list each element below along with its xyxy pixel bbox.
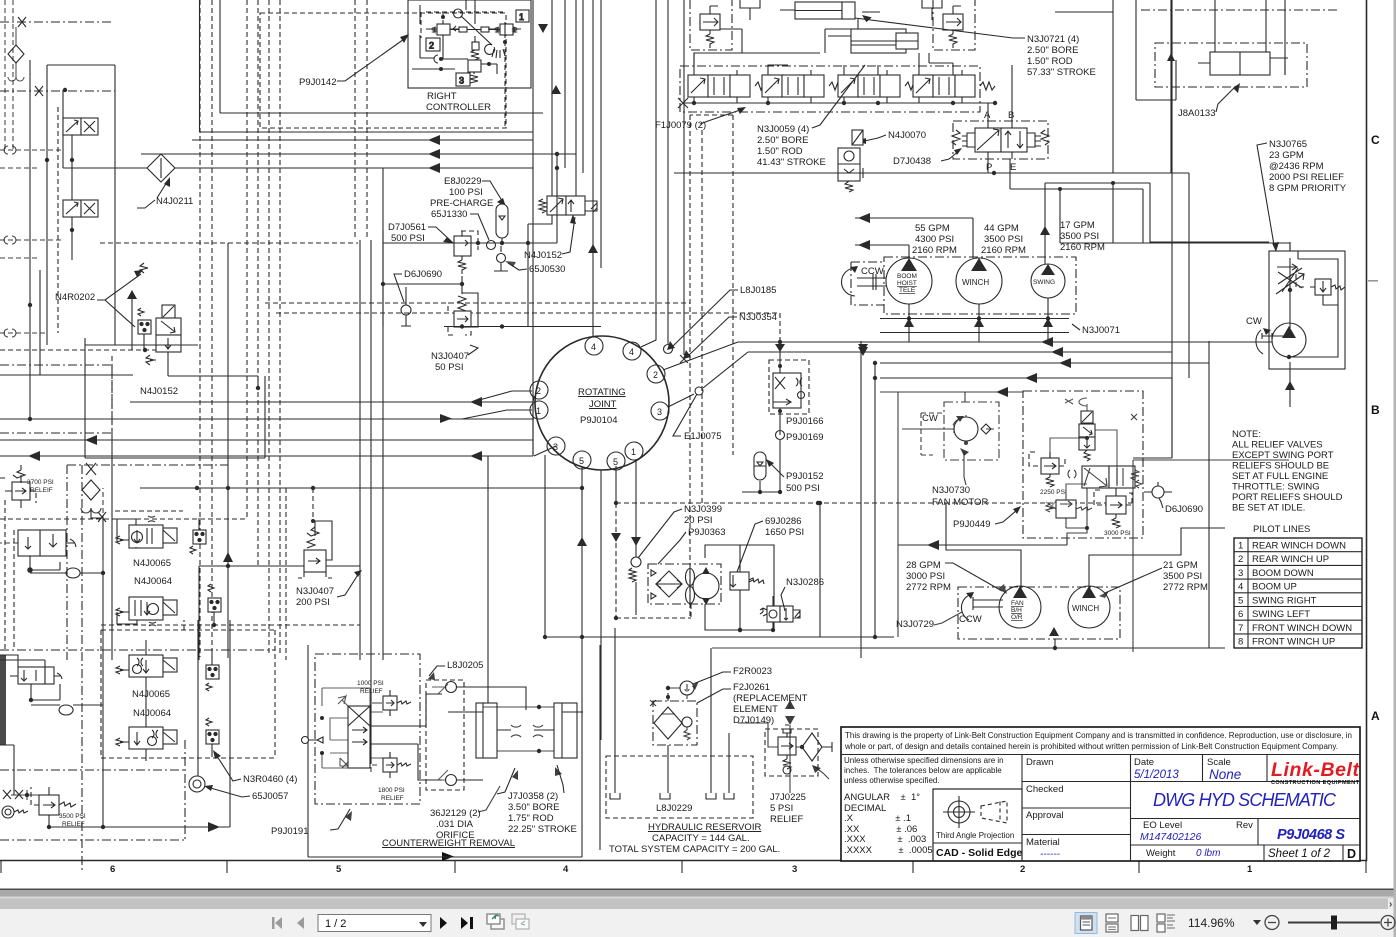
wire bus y284 [383, 283, 462, 285]
svg-text:RELIEF: RELIEF [360, 688, 383, 695]
svg-text:2000 PSI RELIEF: 2000 PSI RELIEF [1269, 172, 1344, 183]
svg-text:3500 PSI: 3500 PSI [1060, 231, 1099, 242]
leader D6J0690 top [394, 274, 404, 302]
svg-text:69J0286: 69J0286 [765, 516, 801, 527]
svg-text:C: C [1371, 133, 1380, 147]
svg-text:44 GPM: 44 GPM [984, 223, 1019, 234]
svg-text:N4J0152: N4J0152 [524, 250, 562, 261]
svg-text:P9J0152: P9J0152 [786, 471, 824, 482]
wire bus y168 [63, 167, 533, 169]
svg-text:3.50" BORE: 3.50" BORE [508, 802, 559, 813]
valve D7J0438 [952, 121, 1049, 159]
svg-text:2160 RPM: 2160 RPM [912, 245, 957, 256]
svg-text:CONSTRUCTION EQUIPMENT: CONSTRUCTION EQUIPMENT [1271, 780, 1360, 786]
box left edge [383, 168, 444, 327]
wire buses under pumps going right [738, 342, 1272, 352]
filter diamond [82, 480, 100, 500]
main valve P9J0191 [302, 696, 371, 768]
svg-text:.XXX ± .003: .XXX ± .003 [844, 834, 926, 845]
pump group box [884, 257, 1076, 314]
breather F2R0023 [680, 681, 694, 695]
svg-text:P9J0142: P9J0142 [299, 77, 337, 88]
leaders N3J0730 [964, 452, 966, 485]
N4J0065 valve bottom pair [116, 655, 177, 677]
svg-text:D7J0561: D7J0561 [388, 222, 426, 233]
svg-text:PRE-CHARGE: PRE-CHARGE [430, 198, 493, 209]
long wire y173 [674, 173, 1189, 378]
connector boxes right [206, 653, 219, 691]
svg-text:2.50" BORE: 2.50" BORE [757, 135, 808, 146]
svg-text:BE SET AT IDLE.: BE SET AT IDLE. [1232, 503, 1305, 514]
verticals mid [360, 230, 383, 764]
svg-text:RELEIF: RELEIF [30, 487, 53, 494]
wire bus y243 [383, 242, 557, 244]
svg-text:Rev: Rev [1236, 820, 1253, 831]
svg-text:REAR WINCH UP: REAR WINCH UP [1252, 554, 1329, 565]
svg-text:THROTTLE: SWING: THROTTLE: SWING [1232, 482, 1320, 493]
svg-text:CAPACITY = 144 GAL.: CAPACITY = 144 GAL. [652, 833, 750, 844]
svg-text:(REPLACEMENT: (REPLACEMENT [733, 693, 808, 704]
svg-text:D7J0149): D7J0149) [733, 715, 774, 726]
svg-text:N4J0070: N4J0070 [888, 130, 926, 141]
svg-text:D: D [1347, 847, 1356, 861]
svg-text:2250 PSI: 2250 PSI [1040, 489, 1067, 496]
wires fan motor [902, 428, 938, 430]
third angle projection box [933, 789, 1022, 861]
D6J0690 right [1152, 486, 1164, 498]
svg-text:N4J0065: N4J0065 [132, 689, 170, 700]
valve N4J0152 top [539, 196, 597, 215]
wires left [412, 5, 468, 69]
leader P9J0152 [770, 463, 784, 477]
svg-text:N3J0354: N3J0354 [739, 312, 777, 323]
lower reliefs [1046, 494, 1092, 524]
svg-text:P9J0449: P9J0449 [953, 519, 991, 530]
leader N4J0152 [562, 217, 575, 254]
svg-text:1: 1 [1238, 541, 1243, 552]
svg-text:N4J0064: N4J0064 [134, 576, 172, 587]
svg-text:3500 PSI: 3500 PSI [59, 813, 86, 820]
box wires [1066, 488, 1087, 538]
N3J0399 check [631, 557, 641, 567]
svg-text:1 / 2: 1 / 2 [325, 918, 346, 930]
3500 psi relief [28, 787, 76, 827]
wires D7J0438 [988, 65, 1012, 173]
wires right verticals [861, 341, 875, 658]
svg-text:21 GPM: 21 GPM [1163, 560, 1198, 571]
69J0286 relief [730, 545, 764, 630]
svg-text:22.25" STROKE: 22.25" STROKE [508, 824, 577, 835]
svg-text:5: 5 [613, 457, 618, 467]
small tee boxes [740, 0, 942, 20]
top box partial [1055, 12, 1176, 100]
relief N3J0407 50psi [448, 284, 478, 335]
leader N3J0721 [855, 18, 1025, 38]
pump SWING [1031, 264, 1065, 298]
leader N4J0211 [137, 182, 167, 208]
svg-text:B: B [1008, 110, 1014, 121]
bottom bus [49, 826, 230, 828]
leader D7J0561 [428, 227, 451, 241]
pilot valve 3 [456, 60, 489, 86]
svg-text:2: 2 [429, 41, 434, 51]
leader 65J0530 [508, 263, 527, 270]
svg-text:F2R0023: F2R0023 [733, 666, 772, 677]
wire bus y402 [130, 401, 533, 403]
svg-text:1.50" ROD: 1.50" ROD [1027, 56, 1073, 67]
filter F2J0261 [653, 701, 697, 745]
svg-text:65J0057: 65J0057 [252, 791, 288, 802]
svg-text:N3J0407: N3J0407 [431, 351, 469, 362]
svg-text:Unless otherwise specified dim: Unless otherwise specified dimensions ar… [844, 756, 1004, 765]
toolbar zoom area [1075, 913, 1395, 934]
svg-text:ROTATING: ROTATING [578, 387, 626, 398]
svg-text:5: 5 [1238, 596, 1243, 607]
svg-text:REAR WINCH DOWN: REAR WINCH DOWN [1252, 541, 1346, 552]
svg-text:D6J0690: D6J0690 [1165, 504, 1203, 515]
check valve N4J0070 [838, 130, 863, 192]
svg-text:.031 DIA: .031 DIA [436, 819, 474, 830]
svg-text:1: 1 [631, 447, 636, 457]
svg-text:6: 6 [1238, 609, 1243, 620]
wire bus y326 [444, 326, 601, 328]
svg-text:WINCH: WINCH [1072, 604, 1099, 613]
svg-text:N3J0071: N3J0071 [1082, 325, 1120, 336]
svg-text:M147402126: M147402126 [1140, 831, 1201, 843]
svg-text:F2J0261: F2J0261 [733, 682, 770, 693]
wire bus y440 [0, 439, 533, 441]
P9J0363 filter box [648, 564, 721, 604]
svg-text:P9J0363: P9J0363 [688, 527, 726, 538]
svg-text:8: 8 [1238, 637, 1243, 648]
svg-text:500 PSI: 500 PSI [786, 483, 820, 494]
svg-text:3000 PSI: 3000 PSI [1104, 530, 1131, 537]
relief cluster right [933, 0, 975, 50]
svg-text:6: 6 [110, 864, 115, 875]
boom cylinder 2 [694, 19, 918, 66]
svg-text:CAD - Solid Edge: CAD - Solid Edge [936, 847, 1022, 859]
leader N3J0407 [468, 345, 478, 355]
svg-text:CONTROLLER: CONTROLLER [426, 102, 491, 113]
svg-text:RELIEF: RELIEF [381, 795, 404, 802]
D7J0561 spring chain down [461, 260, 463, 284]
wire top verticals to bank [583, 0, 684, 355]
svg-text:WINCH: WINCH [962, 278, 989, 287]
svg-text:ANGULAR ± 1°: ANGULAR ± 1° [844, 792, 920, 803]
svg-text:P9J0468 S: P9J0468 S [1277, 827, 1345, 843]
svg-text:20 PSI: 20 PSI [684, 515, 713, 526]
valve N4J0152 mid [146, 305, 258, 388]
svg-text:3500 PSI: 3500 PSI [1163, 571, 1202, 582]
svg-text:3: 3 [459, 76, 464, 86]
wire buses [663, 342, 748, 407]
svg-text:L8J0185: L8J0185 [740, 285, 776, 296]
svg-text:CCW: CCW [861, 266, 884, 277]
dashed pilot line [616, 502, 1132, 504]
svg-text:SWING RIGHT: SWING RIGHT [1252, 596, 1317, 607]
svg-text:J7J0358 (2): J7J0358 (2) [508, 791, 558, 802]
svg-text:SWING: SWING [1033, 279, 1055, 286]
cylinders J7J0358 [448, 703, 583, 758]
svg-text:FRONT WINCH UP: FRONT WINCH UP [1252, 637, 1335, 648]
svg-text:RELIEFS SHOULD BE: RELIEFS SHOULD BE [1232, 461, 1329, 472]
svg-text:0 lbm: 0 lbm [1196, 848, 1220, 859]
svg-text:2: 2 [536, 386, 541, 396]
solenoid b [63, 200, 98, 217]
check 65J0530 [497, 254, 506, 263]
svg-text:36J2129 (2): 36J2129 (2) [430, 808, 481, 819]
svg-text:BOOM UP: BOOM UP [1252, 582, 1297, 593]
P9J0152 accumulator [754, 452, 766, 492]
leader L8J0205 [429, 666, 445, 676]
N4R0202 connector + leaders [138, 308, 151, 350]
svg-text:FAN MOTOR: FAN MOTOR [932, 497, 988, 508]
svg-text:J7J0225: J7J0225 [770, 792, 806, 803]
svg-text:D7J0438: D7J0438 [893, 156, 931, 167]
leader N3J0399 [638, 509, 682, 558]
valve N3J0059 2 [762, 70, 844, 103]
svg-text:EXCEPT SWING PORT: EXCEPT SWING PORT [1232, 450, 1334, 461]
svg-text:1: 1 [519, 12, 524, 22]
pump BOOM HOIST TELE [886, 258, 932, 304]
pilot valve 2 [426, 24, 459, 51]
svg-text:28 GPM: 28 GPM [906, 560, 941, 571]
svg-text:4: 4 [591, 342, 596, 352]
svg-text:2772 RPM: 2772 RPM [906, 582, 951, 593]
leaders [215, 753, 241, 781]
junction dots on bank bus [692, 101, 696, 105]
fan motor circle [693, 573, 719, 599]
svg-text:2: 2 [1020, 864, 1025, 875]
svg-text:TOTAL SYSTEM CAPACITY = 200 GA: TOTAL SYSTEM CAPACITY = 200 GAL. [609, 844, 780, 855]
svg-text:P9J0166: P9J0166 [786, 416, 824, 427]
valve cluster left-bottom series [18, 530, 76, 572]
dash-dot borders bottom-left [0, 465, 275, 870]
connector box small 1 [190, 518, 206, 554]
svg-text:@2436 RPM: @2436 RPM [1269, 161, 1324, 172]
P9J0166 [769, 360, 809, 414]
pilot valve 1 [488, 10, 529, 35]
wire box around N4J0152 [85, 338, 265, 458]
svg-text:5 PSI: 5 PSI [770, 803, 793, 814]
date/scale row [1131, 755, 1361, 782]
svg-text:CW: CW [922, 413, 938, 424]
svg-text:2772 RPM: 2772 RPM [1163, 582, 1208, 593]
linkage [454, 9, 463, 18]
svg-text:N3J0730: N3J0730 [932, 485, 970, 496]
svg-text:2160 RPM: 2160 RPM [981, 245, 1026, 256]
svg-text:100 PSI: 100 PSI [449, 187, 483, 198]
svg-text:55 GPM: 55 GPM [915, 223, 950, 234]
L8J0205 dashed box [426, 680, 464, 790]
svg-text:EO Level: EO Level [1143, 820, 1182, 831]
svg-text:N3J0286: N3J0286 [786, 577, 824, 588]
svg-text:57.33" STROKE: 57.33" STROKE [1027, 67, 1096, 78]
wire bottom bus [545, 630, 894, 637]
svg-text:P: P [986, 162, 992, 173]
wire bus y418 [0, 418, 534, 420]
big dashed box left of fan motor [921, 413, 944, 455]
svg-text:------: ------ [1040, 849, 1061, 860]
svg-text:3500 PSI: 3500 PSI [984, 234, 1023, 245]
joint bottom verticals [488, 455, 601, 740]
svg-text:N3J0765: N3J0765 [1269, 139, 1307, 150]
svg-text:N4J0064: N4J0064 [133, 708, 171, 719]
svg-text:3: 3 [1238, 568, 1243, 579]
valve bank F1J0079 box [680, 66, 980, 112]
svg-text:8 GPM PRIORITY: 8 GPM PRIORITY [1269, 183, 1347, 194]
3700 psi relief [0, 465, 36, 508]
leader 65J1330 [470, 214, 489, 240]
leaders [497, 768, 515, 794]
leader J8A0133 [1216, 86, 1236, 112]
svg-text:2: 2 [1238, 554, 1243, 565]
svg-text:Approval: Approval [1026, 810, 1064, 821]
leader N4J0070 [860, 135, 886, 142]
accumulator E8J0229 [496, 204, 508, 243]
svg-text:J8A0133: J8A0133 [1178, 108, 1216, 119]
svg-text:D6J0690: D6J0690 [404, 269, 442, 280]
leader F1J0079 [700, 109, 743, 124]
svg-text:JOINT: JOINT [589, 399, 617, 410]
wire box verticals [200, 0, 544, 132]
svg-text:TELE: TELE [899, 287, 916, 294]
svg-text:Link-Belt: Link-Belt [1271, 759, 1361, 781]
svg-text:ALL RELIEF VALVES: ALL RELIEF VALVES [1232, 440, 1323, 451]
svg-text:N4J0152: N4J0152 [140, 386, 178, 397]
dash-dot box [315, 654, 420, 804]
svg-text:CCW: CCW [959, 614, 982, 625]
valve D7J0561 [454, 231, 478, 274]
svg-text:Drawn: Drawn [1026, 757, 1053, 768]
flow control symbol [1276, 258, 1304, 294]
svg-text:Third Angle Projection: Third Angle Projection [936, 831, 1014, 840]
joint left links [533, 396, 556, 456]
leader 69J0286 [737, 521, 763, 572]
ladder dashed rungs [0, 150, 63, 350]
svg-text:PORT RELIEFS SHOULD: PORT RELIEFS SHOULD [1232, 492, 1343, 503]
svg-text:L8J0229: L8J0229 [656, 803, 692, 814]
N3J0286 solenoid valve [760, 606, 800, 622]
pump WINCH [956, 258, 1002, 304]
svg-text:Date: Date [1134, 757, 1154, 768]
svg-text:COUNTERWEIGHT REMOVAL: COUNTERWEIGHT REMOVAL [382, 838, 515, 849]
svg-text:3: 3 [657, 407, 662, 417]
svg-text:NOTE:: NOTE: [1232, 429, 1261, 440]
svg-text:E: E [1010, 162, 1016, 173]
port5 wire [422, 466, 616, 857]
big left valve bottom [10, 667, 62, 684]
svg-text:500 PSI: 500 PSI [391, 233, 425, 244]
filter N4J0211 [147, 154, 175, 182]
svg-text:17 GPM: 17 GPM [1060, 220, 1095, 231]
svg-text:3000 PSI: 3000 PSI [906, 571, 945, 582]
leader P9J0363 [658, 532, 686, 564]
svg-text:SWING LEFT: SWING LEFT [1252, 609, 1310, 620]
svg-text:HOIST: HOIST [897, 280, 917, 287]
svg-text:N3J0407: N3J0407 [296, 586, 334, 597]
leader P9J0449 [995, 510, 1017, 524]
svg-text:1: 1 [536, 406, 541, 416]
svg-text:N4R0202: N4R0202 [55, 292, 95, 303]
svg-text:B/H: B/H [1011, 607, 1022, 614]
leader E8J0229 [482, 181, 504, 204]
wires to check box [370, 694, 442, 780]
svg-text:whole or part, of design and d: whole or part, of design and details con… [844, 742, 1338, 751]
relief 1800psi [371, 752, 411, 778]
boom cylinder top [780, 2, 855, 19]
wire bus y455 [0, 455, 533, 457]
CW arrow [1256, 330, 1263, 354]
verticals right [533, 0, 565, 456]
solenoid a [63, 118, 98, 135]
wire cylinder leads [694, 12, 953, 75]
up arrow on x593 [588, 244, 598, 253]
svg-text:2160 RPM: 2160 RPM [1060, 242, 1105, 253]
P9J0169 check [776, 431, 785, 440]
leader N3J0059 [812, 65, 865, 128]
svg-text:unless otherwise specified.: unless otherwise specified. [844, 776, 940, 785]
svg-text:FAN: FAN [1011, 600, 1024, 607]
valve N3J0059 3 [838, 70, 920, 103]
connector box small 2 [208, 584, 221, 625]
svg-text:P9J0169: P9J0169 [786, 432, 824, 443]
svg-text:1: 1 [1247, 864, 1253, 875]
solenoid valve top [1079, 411, 1095, 461]
svg-text:.XXXX ± .0005: .XXXX ± .0005 [844, 845, 933, 856]
wire bus y363/378 right segment [880, 363, 1209, 458]
svg-text:›: › [1389, 899, 1392, 910]
svg-text:5: 5 [336, 864, 342, 875]
svg-text:3: 3 [792, 864, 797, 875]
svg-text:ELEMENT: ELEMENT [733, 704, 778, 715]
svg-text:N3R0460 (4): N3R0460 (4) [243, 774, 297, 785]
svg-text:F1J0079 (2): F1J0079 (2) [655, 120, 706, 131]
svg-text:CW: CW [1246, 316, 1262, 327]
priority valve box [1269, 251, 1345, 369]
svg-text:SET AT FULL ENGINE: SET AT FULL ENGINE [1232, 471, 1328, 482]
svg-text:41.43" STROKE: 41.43" STROKE [757, 157, 826, 168]
wire bus y154 [141, 153, 576, 155]
svg-text:7: 7 [1238, 623, 1243, 634]
wire bus y140 [192, 139, 533, 141]
svg-text:3700 PSI: 3700 PSI [27, 479, 54, 486]
leader D7J0438 [941, 151, 959, 161]
fan blades [686, 569, 695, 586]
leader N3J0286 [781, 587, 785, 611]
toolbar page nav [272, 914, 529, 932]
right tall verticals [1150, 0, 1172, 458]
svg-text:RIGHT: RIGHT [427, 91, 457, 102]
svg-text:L8J0205: L8J0205 [447, 660, 483, 671]
svg-text:65J0530: 65J0530 [529, 264, 565, 275]
svg-text:N3J0729: N3J0729 [896, 619, 934, 630]
svg-text:5: 5 [579, 456, 584, 466]
svg-text:Sheet 1 of 2: Sheet 1 of 2 [1268, 848, 1331, 860]
relief valve small [1296, 273, 1345, 295]
svg-text:Checked: Checked [1026, 784, 1064, 795]
svg-text:1800 PSI: 1800 PSI [378, 787, 405, 794]
lines from pumps bottom y607 [898, 392, 965, 637]
svg-text:N3J0399: N3J0399 [684, 504, 722, 515]
svg-text:B: B [1371, 403, 1380, 417]
svg-text:HYDRAULIC RESERVOIR: HYDRAULIC RESERVOIR [648, 822, 761, 833]
svg-text:FRONT WINCH DOWN: FRONT WINCH DOWN [1252, 623, 1352, 634]
leader N3J0765 [1257, 143, 1274, 245]
relief 1000psi [371, 690, 411, 716]
svg-text:inches. The tolerances below: inches. The tolerances below are applica… [844, 766, 1002, 775]
leader P9J0142 [337, 37, 407, 81]
